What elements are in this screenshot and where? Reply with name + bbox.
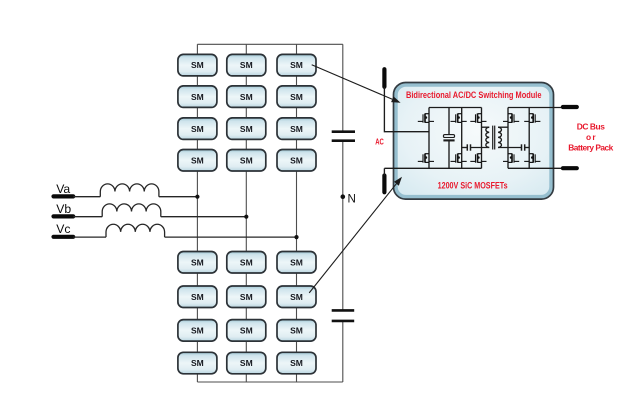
callout arrow from upper SM to module detail [312, 65, 401, 103]
svg-text:SM: SM [240, 124, 253, 134]
callout arrow from lower SM to module detail [309, 177, 402, 293]
svg-text:SM: SM [191, 155, 204, 165]
wire switching leg B [461, 108, 463, 169]
svg-text:SM: SM [191, 292, 204, 302]
transistor Q7 (leg D high-side) [503, 114, 519, 123]
svg-text:SM: SM [290, 358, 303, 368]
svg-text:SM: SM [240, 358, 253, 368]
submodule SM upper arm row1 col2 [227, 54, 266, 76]
wire switching leg C [481, 108, 483, 169]
capacitor C5 (secondary series blocking) [522, 144, 525, 150]
junction dot phase c [294, 235, 298, 239]
svg-text:SM: SM [240, 292, 253, 302]
submodule SM upper arm row2 col3 [277, 86, 316, 108]
wire leg C midpoint to transformer primary top [482, 126, 490, 128]
wire primary bridge top rail [429, 107, 482, 109]
wire phase-leg column 3 [296, 44, 298, 382]
wire Va terminal to inductor [73, 196, 100, 198]
submodule SM upper arm row3 col3 [277, 118, 316, 139]
node N (neutral midpoint) [341, 192, 356, 205]
submodule SM lower arm row3 col3 [277, 320, 316, 342]
submodule SM lower arm row4 col1 [178, 352, 217, 374]
svg-text:SM: SM [240, 257, 253, 267]
svg-text:Va: Va [56, 182, 70, 196]
svg-text:SM: SM [290, 257, 303, 267]
wire phase-leg column 2 [245, 44, 247, 382]
svg-text:SM: SM [240, 92, 253, 102]
wire top DC rail [197, 43, 342, 45]
svg-text:Bidirectional AC/DC Switching: Bidirectional AC/DC Switching Module [406, 89, 542, 100]
submodule SM lower arm row1 col2 [227, 252, 266, 274]
wire Vc inductor to column 3 [165, 236, 297, 238]
svg-text:SM: SM [191, 124, 204, 134]
inductor Lc [106, 224, 165, 237]
module detail box (Bidirectional AC/DC Switching Module) [394, 83, 554, 200]
wire transformer secondary top to leg D midpoint [498, 126, 508, 128]
submodule SM upper arm row4 col1 [178, 150, 217, 172]
submodule SM upper arm row4 col3 [277, 150, 316, 172]
submodule SM upper arm row1 col3 [277, 54, 316, 76]
svg-text:SM: SM [191, 257, 204, 267]
transistor Q4 (leg B low-side) [451, 154, 467, 163]
junction dot phase a [195, 195, 199, 199]
svg-text:DC Bus: DC Bus [577, 121, 606, 131]
svg-text:SM: SM [191, 326, 204, 336]
transistor Q3 (leg B high-side) [451, 114, 467, 123]
svg-text:SM: SM [290, 124, 303, 134]
submodule SM upper arm row4 col2 [227, 150, 266, 172]
wire DC-link branch upper [342, 44, 344, 131]
svg-text:SM: SM [290, 326, 303, 336]
wire secondary bridge bottom rail (to DC-) [508, 167, 563, 169]
svg-text:Vb: Vb [56, 202, 71, 216]
transistor Q8 (leg D low-side) [503, 154, 519, 163]
svg-text:SM: SM [191, 92, 204, 102]
capacitor C4 (primary series blocking) [467, 144, 470, 150]
wire DC-link branch middle [342, 142, 344, 310]
svg-text:SM: SM [191, 358, 204, 368]
wire bottom DC rail [197, 381, 342, 383]
svg-text:SM: SM [290, 292, 303, 302]
transistor Q5 (leg C high-side) [470, 114, 486, 123]
wire DC-link branch lower [342, 322, 344, 382]
svg-text:SM: SM [290, 60, 303, 70]
wire series capacitor to transformer primary bottom [471, 147, 489, 149]
terminal Va input [54, 194, 74, 198]
submodule SM lower arm row2 col2 [227, 286, 266, 308]
inductor Lb [102, 204, 161, 217]
svg-text:Vc: Vc [56, 222, 70, 236]
capacitor C3 (module DC-link electrolytic) [443, 108, 454, 169]
junction dot phase b [244, 215, 248, 219]
terminal DC- [563, 166, 577, 170]
wire leg B midpoint to series capacitor [462, 147, 467, 149]
svg-text:SM: SM [240, 60, 253, 70]
submodule SM upper arm row1 col1 [178, 54, 217, 76]
submodule SM lower arm row3 col2 [227, 320, 266, 342]
wire Va inductor to column 1 [159, 196, 198, 198]
wire switching leg E [528, 108, 530, 169]
wire AC input to leg A midpoint [384, 87, 429, 132]
submodule SM lower arm row2 col3 [277, 286, 316, 308]
wire secondary bridge top rail (to DC+) [508, 107, 563, 109]
wire Vb inductor to column 2 [161, 216, 247, 218]
transistor Q10 (leg E low-side) [524, 154, 540, 163]
wire transformer secondary bottom to series capacitor [498, 147, 521, 149]
svg-text:1200V SiC MOSFETs: 1200V SiC MOSFETs [438, 180, 508, 191]
terminal Vc input [54, 235, 74, 239]
submodule SM upper arm row3 col1 [178, 118, 217, 139]
transformer T1 [486, 126, 502, 150]
terminal AC top [382, 69, 386, 87]
terminal Vb input [54, 214, 74, 218]
wire switching leg D [507, 108, 509, 169]
transistor Q2 (leg A low-side) [418, 154, 434, 163]
submodule SM upper arm row2 col1 [178, 86, 217, 108]
wire phase-leg column 1 [196, 44, 198, 382]
wire switching leg A [428, 108, 430, 169]
svg-text:AC: AC [375, 136, 384, 146]
label DC Bus or Battery Pack [568, 121, 613, 152]
submodule SM lower arm row1 col1 [178, 252, 217, 274]
svg-text:SM: SM [240, 155, 253, 165]
inductor La [100, 184, 159, 197]
submodule SM lower arm row2 col1 [178, 286, 217, 308]
svg-text:SM: SM [290, 155, 303, 165]
svg-text:SM: SM [240, 326, 253, 336]
submodule SM lower arm row4 col2 [227, 352, 266, 374]
submodule SM upper arm row3 col2 [227, 118, 266, 139]
terminal AC bottom [382, 176, 386, 193]
submodule SM upper arm row2 col2 [227, 86, 266, 108]
svg-text:SM: SM [290, 92, 303, 102]
capacitor C1 (upper DC-link) [332, 132, 355, 141]
wire AC return bend [383, 168, 385, 175]
transistor Q6 (leg C low-side) [470, 154, 486, 163]
submodule SM lower arm row3 col1 [178, 320, 217, 342]
wire primary bridge bottom rail [384, 167, 481, 169]
wire Vc terminal to inductor [73, 236, 106, 238]
svg-text:SM: SM [191, 60, 204, 70]
terminal DC+ [563, 105, 577, 109]
transistor Q9 (leg E high-side) [524, 114, 540, 123]
transistor Q1 (leg A high-side) [418, 114, 434, 123]
submodule SM lower arm row4 col3 [277, 352, 316, 374]
wire series capacitor to leg E midpoint [525, 147, 529, 149]
submodule SM lower arm row1 col3 [277, 252, 316, 274]
wire Vb terminal to inductor [73, 216, 102, 218]
capacitor C2 (lower DC-link) [332, 310, 355, 321]
svg-text:N: N [348, 192, 356, 205]
svg-text:Battery Pack: Battery Pack [568, 142, 613, 152]
